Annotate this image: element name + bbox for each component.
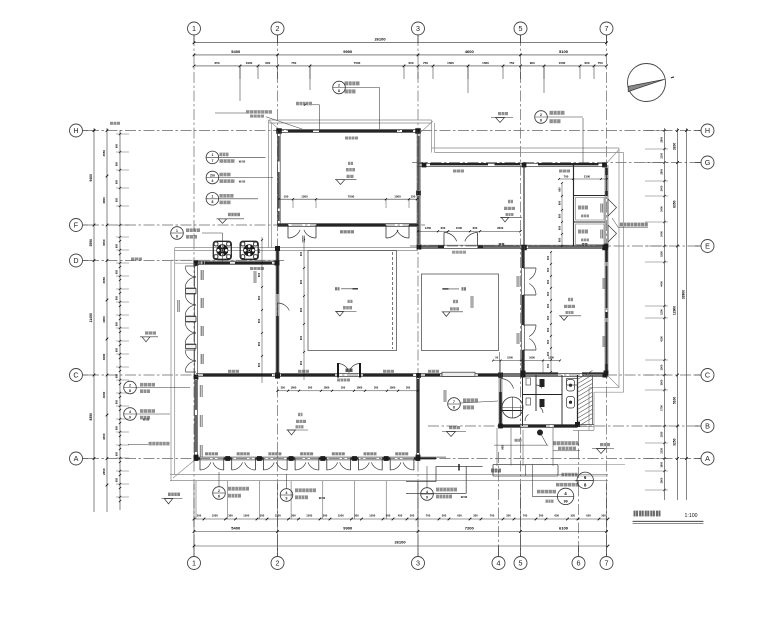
svg-text:300: 300	[341, 386, 346, 390]
svg-text:1: 1	[192, 24, 196, 33]
interior dim right wing	[559, 178, 607, 180]
svg-text:600: 600	[116, 425, 119, 430]
svg-text:1:100: 1:100	[685, 513, 698, 519]
svg-text:1200: 1200	[660, 309, 664, 315]
toilet block walls	[498, 373, 500, 427]
svg-text:2: 2	[129, 383, 131, 387]
kitchen doors M0921	[529, 268, 536, 280]
svg-text:1700: 1700	[660, 405, 664, 411]
kitchen south wall	[523, 372, 558, 374]
svg-text:C: C	[705, 371, 710, 380]
section marks on E wall	[499, 243, 505, 246]
svg-text:600: 600	[257, 362, 261, 367]
double door west wing	[185, 266, 196, 276]
svg-text:3950: 3950	[102, 277, 106, 284]
svg-text:G: G	[705, 158, 711, 167]
small dim row above toilet	[493, 360, 560, 362]
left dimension lines	[93, 128, 95, 512]
stub above toilet west wall	[499, 352, 501, 373]
svg-text:1550: 1550	[660, 431, 664, 437]
rotated door label porch N wall	[254, 271, 257, 283]
svg-text:4350: 4350	[102, 433, 106, 440]
svg-text:2250: 2250	[660, 447, 664, 453]
svg-text:9: 9	[129, 415, 131, 419]
grid line A	[88, 458, 701, 460]
svg-text:650: 650	[557, 200, 561, 205]
detail marker bottom centre 2	[280, 489, 293, 502]
svg-text:1: 1	[192, 559, 196, 568]
right wing south wall on E	[417, 244, 607, 246]
wash basin round table	[502, 397, 523, 418]
svg-text:W.02: W.02	[239, 160, 246, 164]
svg-text:600: 600	[116, 451, 119, 456]
svg-text:600: 600	[257, 295, 261, 300]
svg-text:300: 300	[546, 255, 550, 260]
svg-text:600: 600	[116, 321, 119, 326]
title: floor plan label	[634, 511, 639, 517]
rotated labels kitchen west wall	[517, 276, 520, 287]
svg-text:300: 300	[546, 291, 550, 296]
top mid leader labels near canopy	[340, 230, 354, 233]
svg-text:2: 2	[276, 559, 280, 568]
svg-text:650: 650	[557, 213, 561, 218]
activity room (top) walls	[278, 129, 418, 131]
tiny label NW corner left wing	[199, 261, 207, 264]
storage labels	[578, 206, 588, 210]
note east window guard	[620, 223, 648, 227]
svg-text:1500: 1500	[338, 513, 344, 517]
east wall grid7	[604, 165, 606, 373]
svg-text:900: 900	[530, 61, 535, 65]
right dimension lines	[664, 128, 666, 500]
svg-text:5: 5	[519, 24, 523, 33]
detail marker bottom right of arcade	[421, 488, 434, 501]
svg-text:1500: 1500	[456, 226, 463, 230]
svg-text:2600: 2600	[497, 226, 504, 230]
svg-text:26100: 26100	[374, 37, 386, 42]
svg-text:7: 7	[605, 24, 609, 33]
svg-text:1900: 1900	[246, 61, 253, 65]
svg-text:750: 750	[509, 61, 514, 65]
svg-text:5100: 5100	[559, 49, 569, 54]
svg-text:8350: 8350	[89, 413, 93, 421]
svg-text:12900: 12900	[673, 306, 677, 315]
svg-text:900: 900	[299, 335, 303, 340]
svg-text:2900: 2900	[660, 477, 664, 483]
svg-text:5400: 5400	[231, 49, 241, 54]
west elevation marker	[140, 336, 158, 338]
grid bubbles left	[70, 124, 83, 137]
folding door bay	[228, 458, 232, 460]
svg-text:350: 350	[473, 513, 478, 517]
svg-text:C: C	[73, 371, 78, 380]
detail marker F porch	[171, 227, 184, 240]
svg-text:1: 1	[211, 195, 213, 199]
svg-text:300: 300	[354, 513, 359, 517]
small leader top-left eave	[221, 99, 223, 101]
svg-text:450: 450	[398, 513, 403, 517]
columns top room	[276, 128, 282, 134]
entry steps right	[493, 464, 558, 466]
entrance corridor rails	[496, 428, 498, 466]
svg-text:7: 7	[605, 559, 609, 568]
svg-text:4: 4	[426, 490, 428, 494]
grid bubbles top	[188, 22, 201, 35]
svg-text:600: 600	[116, 373, 119, 378]
room label activity room	[348, 162, 353, 165]
svg-text:8: 8	[211, 200, 213, 204]
grid line B	[428, 425, 701, 427]
grid bubbles bottom	[188, 557, 201, 570]
left wing west wall grid1 doors	[194, 263, 196, 457]
C wall (grid C)	[196, 373, 607, 375]
svg-text:600: 600	[116, 179, 119, 184]
svg-text:900: 900	[299, 251, 303, 256]
top dimension lines	[194, 42, 607, 44]
svg-text:4: 4	[286, 491, 288, 495]
svg-text:2400: 2400	[660, 231, 664, 237]
svg-text:2400: 2400	[660, 185, 664, 191]
svg-text:300: 300	[406, 386, 411, 390]
svg-text:5: 5	[519, 559, 523, 568]
detail marker fang fu mu	[206, 171, 219, 184]
window labels C wall	[228, 370, 239, 373]
svg-text:600: 600	[116, 143, 119, 148]
grid line H	[88, 130, 701, 132]
svg-text:300: 300	[291, 513, 296, 517]
svg-text:3250: 3250	[673, 438, 677, 446]
svg-text:1500: 1500	[507, 355, 513, 359]
storeroom door labels rotated	[600, 204, 603, 213]
double door west wing	[185, 322, 196, 332]
detail marker chimney top	[333, 81, 346, 94]
stage platform rect	[308, 251, 397, 351]
svg-text:300: 300	[260, 513, 265, 517]
svg-text:1500: 1500	[243, 513, 249, 517]
svg-text:2800: 2800	[660, 168, 664, 174]
svg-text:1500: 1500	[482, 61, 489, 65]
svg-text:8350: 8350	[673, 200, 677, 208]
svg-text:3: 3	[416, 559, 420, 568]
svg-text:650: 650	[457, 513, 462, 517]
right wing north wall on G	[417, 163, 607, 165]
roof/eave envelope outline	[269, 119, 432, 121]
svg-text:26100: 26100	[394, 540, 406, 545]
grid line C	[88, 374, 701, 376]
right wing room label	[508, 200, 513, 203]
folding door bay	[355, 458, 359, 460]
svg-text:700: 700	[523, 513, 528, 517]
svg-text:300: 300	[386, 513, 391, 517]
svg-text:1800: 1800	[291, 386, 297, 390]
svg-text:1350: 1350	[425, 226, 432, 230]
double door hall south	[337, 363, 339, 378]
dining label	[462, 287, 467, 290]
svg-text:1550: 1550	[660, 251, 664, 257]
svg-text:700: 700	[564, 174, 569, 178]
svg-text:300: 300	[546, 303, 550, 308]
svg-text:1900: 1900	[660, 461, 664, 467]
svg-text:A: A	[74, 454, 79, 463]
svg-text:2: 2	[338, 83, 340, 87]
svg-text:300: 300	[546, 279, 550, 284]
folding door bay	[196, 458, 200, 460]
storage inner room outlines	[576, 198, 605, 221]
grid line G	[412, 162, 701, 164]
double door top room left	[288, 230, 300, 238]
svg-text:1800: 1800	[390, 386, 396, 390]
grid axes	[193, 35, 195, 556]
svg-text:7500: 7500	[354, 61, 361, 65]
svg-text:1500: 1500	[306, 513, 312, 517]
hall west wall grid2	[275, 246, 277, 375]
svg-text:32800: 32800	[682, 290, 686, 300]
svg-text:5100: 5100	[673, 397, 677, 405]
svg-text:8: 8	[129, 389, 131, 393]
svg-text:2100: 2100	[584, 174, 591, 178]
svg-text:700: 700	[490, 513, 495, 517]
svg-text:300: 300	[281, 386, 286, 390]
svg-text:2650: 2650	[102, 468, 106, 475]
svg-text:11450: 11450	[89, 313, 93, 322]
svg-text:4200: 4200	[660, 336, 664, 342]
svg-text:900: 900	[299, 307, 303, 312]
storeroom doors opening east	[608, 199, 617, 216]
toilet partitions & fixtures	[522, 375, 524, 426]
svg-text:8: 8	[453, 405, 455, 409]
svg-text:300: 300	[546, 339, 550, 344]
rotated wall labels east C1517	[603, 278, 606, 289]
svg-text:4: 4	[129, 410, 131, 414]
grid line 4	[498, 452, 500, 556]
svg-text:4850: 4850	[102, 197, 106, 204]
svg-text:3600: 3600	[102, 353, 106, 360]
svg-text:9: 9	[426, 495, 428, 499]
svg-text:1500: 1500	[447, 61, 454, 65]
detail marker entrance steps	[577, 472, 593, 488]
svg-text:1500: 1500	[275, 513, 281, 517]
svg-text:150: 150	[411, 195, 416, 199]
svg-text:H: H	[73, 126, 78, 135]
svg-text:1500: 1500	[660, 364, 664, 370]
double door west wing	[185, 294, 196, 304]
grid line D	[88, 260, 285, 262]
svg-text:2800: 2800	[660, 136, 664, 142]
svg-text:300: 300	[546, 267, 550, 272]
svg-text:1200: 1200	[548, 355, 554, 359]
svg-text:F: F	[74, 221, 79, 230]
detail marker tai jie	[206, 193, 219, 206]
svg-text:650: 650	[557, 187, 561, 192]
svg-text:600: 600	[265, 61, 270, 65]
svg-text:4600: 4600	[465, 49, 475, 54]
svg-text:1: 1	[211, 153, 213, 157]
svg-text:150: 150	[283, 195, 288, 199]
svg-text:5400: 5400	[231, 526, 241, 531]
compass north indicator	[628, 64, 666, 102]
svg-text:2: 2	[276, 24, 280, 33]
small arc toilet lobby	[525, 414, 529, 421]
hall label	[335, 287, 340, 290]
svg-text:600: 600	[116, 295, 119, 300]
san shui note bottom left	[128, 443, 148, 445]
svg-text:300: 300	[374, 386, 379, 390]
svg-text:600: 600	[116, 197, 119, 202]
storage partition walls	[573, 165, 575, 246]
svg-text:300: 300	[539, 513, 544, 517]
svg-text:W.02: W.02	[239, 180, 246, 184]
svg-text:600: 600	[116, 269, 119, 274]
window label right wing	[453, 170, 464, 173]
svg-text:9400: 9400	[89, 174, 93, 182]
svg-text:W.02: W.02	[461, 495, 468, 499]
detail marker hall west 2	[124, 408, 137, 421]
notes above top-left corner	[296, 102, 312, 106]
svg-text:3550: 3550	[102, 239, 106, 246]
interior dim row top room	[279, 198, 417, 200]
rotated label corridor right	[444, 390, 447, 402]
svg-text:600: 600	[584, 61, 589, 65]
svg-text:D: D	[73, 256, 78, 265]
svg-text:300: 300	[442, 513, 447, 517]
svg-text:8: 8	[338, 89, 340, 93]
svg-text:4000: 4000	[102, 391, 106, 398]
svg-text:2m: 2m	[210, 173, 215, 177]
svg-text:650: 650	[586, 513, 591, 517]
detail marker WC	[448, 398, 461, 411]
svg-text:W.02: W.02	[143, 417, 150, 421]
svg-text:4: 4	[211, 179, 213, 183]
grid3 wall lower	[416, 375, 418, 457]
svg-text:2100: 2100	[660, 152, 664, 158]
extension tails below A-wall doors	[195, 481, 197, 519]
grid line E	[410, 245, 701, 247]
toilet door arc	[501, 379, 514, 389]
porch fancy column 2	[240, 241, 258, 259]
svg-text:7200: 7200	[465, 526, 475, 531]
window sill rect in C wall	[442, 372, 475, 376]
svg-text:2400: 2400	[660, 206, 664, 212]
svg-text:1500: 1500	[369, 513, 375, 517]
svg-text:2: 2	[218, 489, 220, 493]
svg-text:900: 900	[299, 279, 303, 284]
double door west wing	[185, 350, 196, 360]
svg-text:8: 8	[176, 234, 178, 238]
grid line 6	[578, 430, 580, 556]
svg-text:600: 600	[257, 341, 261, 346]
svg-text:900: 900	[299, 360, 303, 365]
svg-text:1600: 1600	[529, 355, 535, 359]
entry steps left	[436, 465, 483, 467]
svg-text:600: 600	[116, 161, 119, 166]
svg-text:99: 99	[564, 499, 568, 503]
svg-text:3550: 3550	[89, 239, 93, 247]
svg-text:650: 650	[557, 237, 561, 242]
svg-text:1500: 1500	[212, 513, 218, 517]
detail marker hall west 1	[124, 381, 137, 394]
svg-text:9900: 9900	[343, 49, 353, 54]
rotated wall labels west	[177, 300, 180, 312]
svg-text:300: 300	[601, 513, 606, 517]
folding door bay	[386, 458, 390, 460]
window label C7517	[345, 137, 358, 140]
svg-text:300: 300	[308, 386, 313, 390]
ramp hatch SE	[578, 371, 592, 380]
svg-text:9900: 9900	[343, 526, 353, 531]
door hall west	[278, 303, 290, 311]
svg-text:7500: 7500	[348, 195, 355, 199]
svg-text:600: 600	[408, 61, 413, 65]
svg-text:650: 650	[557, 225, 561, 230]
kitchen label	[568, 298, 573, 301]
detail marker bottom centre 1	[213, 487, 226, 500]
double door top room right	[386, 230, 398, 238]
svg-text:H: H	[705, 126, 710, 135]
detail marker san shui	[206, 151, 219, 164]
detail marker stair tread	[557, 488, 573, 504]
folding door bay	[259, 458, 263, 460]
svg-text:4400: 4400	[660, 281, 664, 287]
svg-text:900: 900	[501, 445, 505, 450]
svg-text:300: 300	[323, 513, 328, 517]
svg-text:1500: 1500	[394, 195, 401, 199]
kitchen interior dim chain	[550, 252, 552, 372]
kitchen west wall grid5	[521, 246, 523, 373]
svg-text:750: 750	[291, 61, 296, 65]
grid bubbles right	[701, 124, 714, 137]
svg-text:7: 7	[453, 400, 455, 404]
svg-text:4: 4	[497, 559, 501, 568]
bottom dimension lines	[194, 518, 608, 520]
svg-text:600: 600	[257, 318, 261, 323]
svg-text:2: 2	[540, 113, 542, 117]
svg-text:3: 3	[416, 24, 420, 33]
dining inner rect	[422, 274, 499, 351]
svg-text:B: B	[705, 422, 710, 431]
svg-text:300: 300	[546, 327, 550, 332]
svg-text:4550: 4550	[102, 150, 106, 157]
WC stalls	[540, 379, 545, 387]
A wall arcade with folding doors	[196, 456, 446, 458]
svg-text:E: E	[705, 242, 710, 251]
svg-text:8: 8	[540, 118, 542, 122]
interior dim row dining north	[418, 230, 521, 232]
svg-text:600: 600	[257, 248, 261, 253]
svg-text:600: 600	[116, 477, 119, 482]
door labels west wing inside	[201, 270, 204, 280]
svg-text:6100: 6100	[559, 526, 569, 531]
svg-text:750: 750	[423, 61, 428, 65]
svg-text:650: 650	[555, 513, 560, 517]
svg-text:650: 650	[214, 61, 219, 65]
porch fancy column 1	[213, 241, 231, 259]
svg-text:7: 7	[211, 159, 213, 163]
svg-text:300: 300	[546, 363, 550, 368]
floor drain	[537, 430, 542, 435]
svg-text:300: 300	[546, 315, 550, 320]
elevation marks misc	[217, 218, 245, 220]
tiny label above H	[110, 122, 120, 125]
svg-text:3500: 3500	[660, 379, 664, 385]
svg-text:1500: 1500	[301, 195, 308, 199]
svg-text:1: 1	[176, 229, 178, 233]
svg-text:350: 350	[506, 513, 511, 517]
svg-text:1800: 1800	[324, 386, 330, 390]
svg-text:300: 300	[410, 513, 415, 517]
interior dim row hall south	[278, 390, 419, 392]
svg-text:600: 600	[116, 399, 119, 404]
folding door bay	[323, 458, 327, 460]
